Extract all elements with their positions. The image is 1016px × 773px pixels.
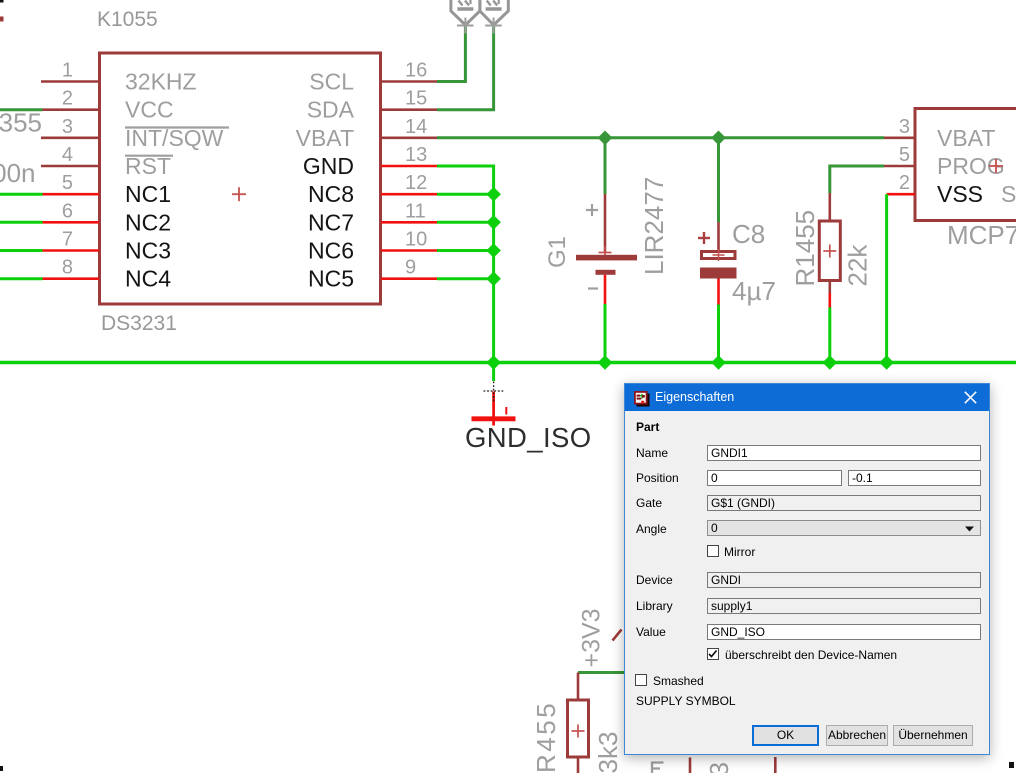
pin 15 SDA [381, 108, 437, 111]
resistor R455 body [568, 700, 589, 757]
IC U K1055 DS3231 body [100, 53, 381, 304]
wire +3V3 net [578, 671, 624, 674]
svg-text:VBAT: VBAT [296, 125, 354, 151]
svg-text:MCP7: MCP7 [947, 220, 1016, 250]
svg-text:NC1: NC1 [125, 181, 171, 207]
junction VBAT/battery [598, 131, 613, 146]
wire C8 to GND bus [717, 305, 720, 363]
svg-text:RST: RST [125, 153, 171, 179]
selection crosshair GNDI1 [484, 382, 504, 402]
svg-text:NC6: NC6 [308, 238, 354, 264]
R455 origin cross [572, 725, 585, 738]
svg-text:8: 8 [62, 257, 73, 279]
pin 6 NC2 [43, 221, 100, 224]
wire pin9 net [437, 277, 494, 280]
net flag SCL [451, 0, 480, 25]
svg-text:3: 3 [899, 116, 910, 138]
wire pin10 net [437, 249, 494, 252]
R1456 pin fragment [689, 758, 692, 773]
flag SCL pin cross [457, 18, 474, 34]
svg-text:5: 5 [899, 144, 910, 166]
svg-text:1: 1 [62, 60, 73, 82]
R1456 pin fragment 2 [774, 757, 777, 773]
C8 bottom plate [700, 268, 737, 279]
label fragment R1456 [652, 762, 664, 773]
junction VBAT/C8 [711, 131, 726, 146]
flag SDA pin cross [485, 18, 502, 34]
svg-text:NC8: NC8 [308, 181, 354, 207]
pin 12 NC8 [381, 193, 437, 196]
wire PROG net [830, 166, 884, 193]
battery minus sign [588, 287, 598, 289]
svg-text:13: 13 [405, 144, 427, 166]
svg-text:16: 16 [405, 60, 427, 82]
wire net to pin 8 [0, 277, 43, 280]
R455 bottom pin [577, 757, 580, 773]
svg-text:GND_ISO: GND_ISO [465, 422, 592, 453]
svg-text:12: 12 [405, 172, 427, 194]
svg-text:NC2: NC2 [125, 209, 171, 235]
wire pin12 net [437, 193, 494, 196]
junction pin9 [486, 271, 501, 286]
junction GND column / bus [486, 355, 501, 370]
wire GND_ISO stub [492, 363, 495, 382]
wire SDA net [437, 26, 494, 110]
svg-text:SDA: SDA [307, 97, 355, 123]
svg-text:+3V3: +3V3 [578, 608, 606, 667]
pin 2 VCC [43, 108, 100, 111]
svg-text:R455: R455 [531, 701, 561, 773]
pin 7 NC3 [43, 249, 100, 252]
pin 5 PROG MCP [884, 165, 915, 168]
svg-text:10: 10 [405, 229, 427, 251]
svg-text:9: 9 [405, 257, 416, 279]
svg-text:3k3: 3k3 [593, 732, 623, 773]
svg-text:32KHZ: 32KHZ [125, 69, 197, 95]
wire net to pin 5 [0, 193, 43, 196]
wire net to pin 7 [0, 249, 43, 252]
junction battery/bus [598, 355, 613, 370]
svg-text:2: 2 [899, 172, 910, 194]
battery G1 bottom plate [596, 270, 616, 275]
R455 top pin [577, 673, 580, 701]
wire battery top [604, 138, 607, 194]
stray mark top-left black [0, 0, 4, 3]
svg-text:GND: GND [303, 153, 354, 179]
pin 11 NC7 [381, 221, 437, 224]
pin 13 GND [381, 165, 437, 168]
wire battery to GND bus [604, 304, 607, 363]
wire R1455 to GND bus [828, 308, 831, 363]
pin 1 32KHZ [41, 80, 99, 83]
pin 16 SCL [381, 80, 437, 83]
pin 9 NC5 [381, 277, 437, 280]
C8 origin cross [713, 249, 725, 261]
R1455 bottom pin [828, 281, 831, 294]
R1455 top pin [828, 193, 831, 221]
battery plus sign [586, 204, 598, 216]
wire VSS to GND bus [885, 194, 888, 362]
junction VSS/bus [879, 355, 894, 370]
C8 positive pin [717, 222, 720, 250]
stray mark bottom-left black [0, 766, 3, 771]
pin 3 INT/SQW [41, 137, 99, 140]
svg-text:5: 5 [62, 172, 73, 194]
svg-text:DS3231: DS3231 [101, 312, 177, 335]
svg-text:VSS: VSS [937, 181, 983, 207]
svg-text:K1055: K1055 [97, 8, 158, 31]
svg-text:7: 7 [62, 229, 73, 251]
svg-text:00n: 00n [0, 158, 36, 188]
supply GNDI1 GND_ISO symbol [472, 392, 516, 426]
junction R1455/bus [823, 355, 838, 370]
IC U2 MCP7x body [915, 109, 1016, 221]
pin 14 VBAT [381, 137, 437, 140]
svg-text:3: 3 [62, 116, 73, 138]
svg-text:R1455: R1455 [790, 210, 820, 287]
resistor R1455 body [819, 221, 840, 281]
origin cross MCP [989, 159, 1003, 173]
wire SCL net [437, 26, 465, 82]
pin 2 VSS MCP [887, 193, 915, 196]
svg-text:6: 6 [62, 200, 73, 222]
svg-text:NC7: NC7 [308, 209, 354, 235]
svg-text:22k: 22k [843, 244, 873, 287]
supply +3V3 arrow fragment [613, 630, 622, 641]
stray mark left maroon [0, 17, 4, 22]
net flag SDA [480, 0, 508, 25]
battery origin cross [599, 246, 612, 259]
pin 5 NC1 [43, 193, 100, 196]
pin 3 VBAT MCP [884, 137, 915, 140]
wire GND pin13 net [437, 166, 494, 363]
svg-text:G1: G1 [544, 236, 571, 268]
C8 top plate [702, 252, 736, 259]
pin 4 RST [41, 165, 99, 168]
junction C8/bus [711, 355, 726, 370]
junction pin12 [486, 187, 501, 202]
C8 plus mark [698, 232, 710, 244]
svg-text:4µ7: 4µ7 [732, 276, 776, 306]
battery G1 top plate [576, 255, 637, 261]
svg-text:355: 355 [0, 108, 42, 138]
svg-text:VCC: VCC [125, 97, 174, 123]
svg-text:15: 15 [405, 88, 427, 110]
wire net to pin 6 [0, 221, 43, 224]
wire VBAT net [437, 136, 884, 139]
junction pin10 [486, 243, 501, 258]
svg-text:C8: C8 [732, 219, 765, 249]
svg-text:NC3: NC3 [125, 238, 171, 264]
svg-text:SCL: SCL [309, 69, 354, 95]
svg-text:NC4: NC4 [125, 266, 171, 292]
C8 negative pin [717, 279, 720, 305]
svg-text:INT/SQW: INT/SQW [125, 125, 224, 151]
svg-text:VBAT: VBAT [937, 125, 995, 151]
R1455 origin cross [823, 245, 836, 258]
svg-text:NC5: NC5 [308, 266, 354, 292]
wire pin11 net [437, 221, 494, 224]
pin 10 NC6 [381, 249, 437, 252]
junction pin11 [486, 215, 501, 230]
svg-text:LIR2477: LIR2477 [639, 177, 669, 275]
battery G1 negative pin [604, 275, 607, 304]
wire C8 top [717, 138, 720, 222]
svg-text:14: 14 [405, 116, 427, 138]
svg-text:3k3: 3k3 [704, 762, 734, 773]
battery G1 positive pin [604, 194, 607, 253]
origin cross DS3231 [232, 187, 246, 201]
wire net to pin 2 [0, 108, 43, 111]
svg-text:S: S [1001, 181, 1016, 207]
net GND_ISO bus line [0, 361, 1016, 364]
stray mark bottom-right black [1009, 762, 1014, 768]
pin 8 NC4 [43, 277, 100, 280]
svg-text:2: 2 [62, 88, 73, 110]
svg-text:11: 11 [405, 200, 426, 222]
svg-text:4: 4 [62, 144, 73, 166]
